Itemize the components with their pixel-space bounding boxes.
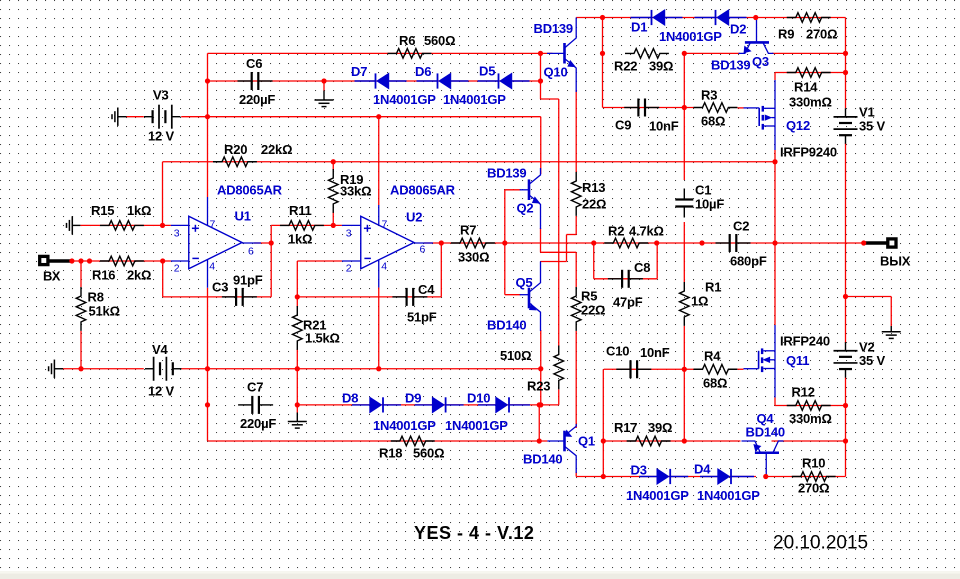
diode D2 [695, 17, 716, 19]
svg-text:1N4001GP: 1N4001GP [443, 92, 506, 107]
junction [205, 78, 210, 83]
wire [296, 349, 298, 405]
wire [541, 251, 577, 253]
diode D5 [478, 80, 499, 82]
junction [205, 114, 210, 119]
wire [80, 224, 170, 226]
wire [766, 476, 846, 478]
resistor R18 [391, 436, 435, 446]
junction [682, 438, 687, 443]
junction [205, 402, 210, 407]
wire [163, 296, 272, 298]
wire [774, 398, 776, 406]
svg-text:2: 2 [174, 263, 180, 275]
wire [80, 331, 82, 369]
resistor R22 [625, 49, 669, 59]
op-amp U2 [361, 216, 414, 269]
svg-text:D6: D6 [415, 64, 431, 79]
junction [600, 15, 605, 20]
junction [376, 114, 381, 119]
wire [378, 288, 380, 369]
wire [603, 107, 694, 109]
wire [162, 261, 164, 297]
junction [538, 78, 543, 83]
wire [440, 243, 442, 297]
diode D10 [478, 404, 496, 406]
junction [682, 51, 687, 56]
wire [575, 216, 577, 235]
capacitor C1 [683, 189, 685, 200]
svg-text:BD139: BD139 [534, 21, 573, 36]
junction [502, 240, 507, 245]
wire [540, 228, 542, 252]
svg-text:680pF: 680pF [730, 254, 767, 269]
junction [160, 258, 165, 263]
svg-text:R8: R8 [88, 290, 104, 305]
resistor R7 [451, 238, 495, 248]
svg-text:R7: R7 [460, 223, 476, 238]
resistor R6 [388, 49, 432, 59]
svg-text:Q1: Q1 [578, 434, 595, 449]
svg-text:Q12: Q12 [786, 118, 810, 133]
junction [538, 51, 543, 56]
junction [295, 294, 300, 299]
svg-text:51kΩ: 51kΩ [89, 304, 120, 319]
svg-text:R17: R17 [614, 420, 637, 435]
wire [181, 116, 541, 118]
svg-text:R12: R12 [792, 385, 815, 400]
svg-text:330Ω: 330Ω [458, 250, 489, 265]
wire [505, 189, 521, 191]
wire [61, 368, 144, 370]
svg-text:R20: R20 [224, 142, 247, 157]
op-amp U1 [189, 216, 242, 269]
junction [682, 367, 687, 372]
wire [602, 18, 604, 108]
svg-text:R2: R2 [608, 224, 624, 239]
svg-text:C9: C9 [615, 118, 631, 133]
wire [540, 53, 542, 99]
wire [541, 404, 559, 406]
junction [376, 366, 381, 371]
svg-text:10µF: 10µF [695, 197, 724, 212]
svg-text:U1: U1 [235, 209, 251, 224]
capacitor C10 [616, 368, 630, 370]
wire [541, 98, 559, 100]
wire [575, 252, 577, 287]
resistor R21 [293, 306, 303, 350]
resistor R9 [787, 13, 831, 23]
junction [772, 159, 777, 164]
svg-text:1Ω: 1Ω [691, 294, 708, 309]
wire [271, 224, 342, 226]
wire [738, 368, 744, 370]
svg-text:1N4001GP: 1N4001GP [659, 29, 722, 44]
svg-text:V3: V3 [153, 88, 169, 103]
wire [575, 331, 577, 428]
svg-text:D1: D1 [631, 20, 647, 35]
svg-text:560Ω: 560Ω [424, 33, 455, 48]
svg-text:C7: C7 [247, 380, 263, 395]
junction [538, 402, 543, 407]
svg-text:Q11: Q11 [786, 353, 809, 368]
junction [295, 402, 300, 407]
junction [439, 240, 444, 245]
svg-text:4.7kΩ: 4.7kΩ [629, 224, 664, 239]
svg-text:ВХ: ВХ [43, 269, 61, 284]
resistor R23 [554, 346, 564, 390]
wire [540, 117, 542, 174]
wire [378, 117, 380, 205]
wire [845, 143, 847, 343]
junction [654, 240, 659, 245]
svg-text:6: 6 [420, 244, 426, 256]
svg-text:R23: R23 [527, 379, 550, 394]
svg-text:270Ω: 270Ω [798, 481, 829, 496]
svg-text:270Ω: 270Ω [806, 27, 837, 42]
svg-text:BD140: BD140 [523, 452, 562, 467]
junction [861, 240, 866, 245]
ground [117, 108, 119, 126]
svg-text:3: 3 [346, 228, 352, 240]
battery V3 [144, 116, 153, 118]
wire [296, 261, 298, 307]
svg-text:1N4001GP: 1N4001GP [373, 418, 436, 433]
wire [540, 330, 542, 405]
svg-text:35 V: 35 V [859, 353, 885, 368]
wire [504, 190, 506, 295]
junction [843, 438, 848, 443]
junction [331, 159, 336, 164]
diode D8 [352, 404, 370, 406]
svg-text:R11: R11 [289, 203, 312, 218]
ground [890, 326, 892, 331]
svg-text:D2: D2 [730, 22, 746, 37]
wire [566, 235, 568, 262]
capacitor C9 [624, 107, 638, 109]
svg-text:Q3: Q3 [752, 54, 769, 69]
MOSFET Q12 [744, 107, 760, 109]
svg-text:C1: C1 [695, 183, 711, 198]
diode D9 [415, 404, 433, 406]
svg-text:2kΩ: 2kΩ [127, 268, 151, 283]
junction [600, 51, 605, 56]
wire [684, 52, 740, 54]
svg-text:35 V: 35 V [859, 119, 885, 134]
junction [772, 240, 777, 245]
svg-text:330mΩ: 330mΩ [789, 95, 832, 110]
svg-text:U2: U2 [406, 210, 422, 225]
svg-text:1kΩ: 1kΩ [288, 232, 312, 247]
svg-text:R18: R18 [379, 446, 402, 461]
junction [843, 70, 848, 75]
svg-text:R4: R4 [704, 349, 721, 364]
wire [207, 53, 209, 197]
resistor R16 [100, 256, 144, 266]
wire [775, 72, 846, 74]
svg-text:R13: R13 [582, 180, 605, 195]
svg-text:R15: R15 [91, 203, 114, 218]
svg-text:2: 2 [346, 263, 352, 275]
svg-text:IRFP9240: IRFP9240 [780, 145, 837, 160]
svg-text:V4: V4 [152, 342, 168, 357]
svg-text:C4: C4 [418, 282, 435, 297]
svg-text:R5: R5 [581, 289, 597, 304]
wire [845, 378, 847, 477]
svg-text:510Ω: 510Ω [500, 348, 531, 363]
junction [753, 15, 758, 20]
wire [162, 162, 164, 226]
resistor R5 [571, 287, 581, 331]
svg-text:12 V: 12 V [148, 129, 174, 144]
svg-text:C8: C8 [634, 260, 650, 275]
resistor R1 [680, 282, 690, 326]
svg-text:C10: C10 [606, 344, 629, 359]
wire [845, 18, 847, 109]
diode D1 [631, 17, 652, 19]
resistor R3 [694, 103, 738, 113]
junction [763, 474, 768, 479]
junction [843, 403, 848, 408]
junction [205, 366, 210, 371]
wire [576, 476, 756, 478]
ground [53, 360, 55, 378]
svg-text:IRFP240: IRFP240 [780, 334, 830, 349]
svg-text:1.5kΩ: 1.5kΩ [305, 331, 340, 346]
wire [656, 243, 658, 279]
wire [594, 278, 657, 280]
svg-text:D3: D3 [631, 463, 647, 478]
svg-text:22Ω: 22Ω [581, 303, 605, 318]
svg-text:YES - 4 - V.12: YES - 4 - V.12 [414, 523, 534, 543]
capacitor C6 [238, 80, 252, 82]
svg-text:V1: V1 [859, 105, 875, 120]
svg-text:10nF: 10nF [649, 119, 679, 134]
svg-text:R1: R1 [705, 280, 721, 295]
svg-text:33kΩ: 33kΩ [340, 184, 371, 199]
svg-text:1kΩ: 1kΩ [127, 203, 151, 218]
transistor Q1 [563, 431, 566, 452]
wire [505, 294, 521, 296]
diode D3 [639, 476, 657, 478]
junction [591, 240, 596, 245]
svg-text:D10: D10 [467, 391, 490, 406]
wire [846, 296, 892, 298]
wire [683, 222, 685, 282]
junction [538, 366, 543, 371]
ground [296, 405, 298, 413]
wire [424, 242, 864, 244]
svg-text:7: 7 [382, 219, 388, 231]
wire [576, 17, 845, 19]
resistor R10 [792, 472, 836, 482]
wire [541, 261, 567, 263]
diode D7 [355, 80, 376, 82]
svg-text:22Ω: 22Ω [582, 197, 606, 212]
svg-text:560Ω: 560Ω [413, 446, 444, 461]
junction [699, 240, 704, 245]
svg-text:91pF: 91pF [233, 273, 263, 288]
svg-text:Q5: Q5 [516, 275, 533, 290]
wire [297, 260, 342, 262]
capacitor C8 [608, 278, 622, 280]
wire [254, 242, 271, 244]
svg-text:330mΩ: 330mΩ [789, 411, 832, 426]
svg-text:220µF: 220µF [240, 416, 276, 431]
wire [207, 288, 209, 441]
svg-text:D4: D4 [694, 462, 711, 477]
junction [537, 402, 542, 407]
wire [772, 52, 846, 54]
ground [323, 81, 325, 91]
svg-text:C3: C3 [212, 280, 228, 295]
wire [772, 440, 846, 442]
resistor R17 [627, 436, 671, 446]
capacitor C7 [238, 404, 252, 406]
svg-text:12 V: 12 V [148, 384, 174, 399]
ground [71, 216, 73, 234]
junction [843, 294, 848, 299]
transistor Q2 [528, 179, 531, 200]
resistor R15 [100, 221, 144, 231]
svg-text:R3: R3 [701, 88, 717, 103]
junction [537, 438, 542, 443]
capacitor C2 [716, 242, 730, 244]
junction [601, 474, 606, 479]
transistor Q10 [563, 43, 566, 64]
junction [843, 51, 848, 56]
wire [538, 405, 540, 441]
svg-text:BD139: BD139 [487, 166, 526, 181]
junction [160, 223, 165, 228]
svg-text:1N4001GP: 1N4001GP [697, 488, 760, 503]
svg-text:4: 4 [209, 261, 215, 273]
wire [575, 472, 577, 477]
svg-text:R16: R16 [92, 268, 115, 283]
svg-text:6: 6 [248, 246, 254, 258]
transistor Q4 [755, 451, 779, 454]
junction [321, 78, 326, 83]
wire [332, 162, 334, 170]
svg-text:D9: D9 [405, 391, 421, 406]
svg-text:Q4: Q4 [757, 411, 775, 426]
wire [774, 73, 776, 81]
svg-text:39Ω: 39Ω [649, 59, 673, 74]
junction [78, 366, 83, 371]
MOSFET Q11 [744, 368, 759, 370]
resistor R19 [328, 169, 338, 213]
svg-text:1N4001GP: 1N4001GP [626, 488, 689, 503]
svg-text:D5: D5 [479, 64, 495, 79]
wire [181, 368, 541, 370]
junction [269, 240, 274, 245]
bottom scrollbar strip [0, 571, 960, 579]
node BX input connector [49, 259, 72, 262]
junction [69, 258, 74, 263]
resistor R8 [76, 287, 86, 331]
junction [682, 105, 687, 110]
resistor R2 [604, 238, 648, 248]
svg-text:D8: D8 [342, 391, 358, 406]
wire [332, 212, 334, 225]
wire [683, 53, 685, 180]
wire [127, 116, 144, 118]
svg-text:1N4001GP: 1N4001GP [445, 418, 508, 433]
wire [683, 326, 685, 441]
wire [558, 99, 560, 346]
resistor R20 [213, 157, 257, 167]
wire [163, 161, 776, 163]
battery V4 [145, 368, 154, 370]
wire [593, 243, 595, 279]
svg-text:47pF: 47pF [613, 295, 643, 310]
wire [558, 390, 560, 405]
transistor Q5 [528, 288, 531, 309]
junction [331, 223, 336, 228]
svg-text:R22: R22 [614, 59, 637, 74]
wire [80, 261, 82, 287]
svg-text:R14: R14 [794, 80, 818, 95]
svg-text:68Ω: 68Ω [701, 114, 725, 129]
svg-text:4: 4 [381, 261, 387, 273]
wire [774, 150, 776, 325]
wire [270, 225, 272, 297]
svg-text:BD140: BD140 [487, 318, 526, 333]
svg-text:1N4001GP: 1N4001GP [373, 92, 436, 107]
svg-text:68Ω: 68Ω [703, 376, 727, 391]
transistor Q3 [745, 41, 769, 44]
wire [603, 440, 740, 442]
resistor R11 [280, 221, 324, 231]
svg-text:3: 3 [174, 228, 180, 240]
svg-text:39Ω: 39Ω [648, 420, 672, 435]
capacitor C4 [392, 296, 406, 298]
svg-text:51pF: 51pF [407, 310, 437, 325]
wire [602, 369, 604, 476]
junction [87, 258, 92, 263]
svg-text:20.10.2015: 20.10.2015 [773, 533, 868, 554]
battery V2 [845, 342, 847, 351]
wire [72, 260, 171, 262]
resistor R13 [571, 172, 581, 216]
svg-text:C6: C6 [246, 56, 262, 71]
svg-text:ВЫХ: ВЫХ [880, 254, 911, 269]
svg-text:220µF: 220µF [239, 92, 275, 107]
svg-text:10nF: 10nF [640, 345, 670, 360]
svg-text:BD140: BD140 [746, 425, 785, 440]
wire [567, 234, 577, 236]
wire [297, 404, 540, 406]
wire [890, 297, 892, 327]
wire [208, 440, 548, 442]
svg-text:AD8065AR: AD8065AR [390, 183, 456, 198]
diode D6 [417, 80, 438, 82]
resistor R14 [787, 68, 831, 78]
battery V1 [845, 108, 847, 117]
svg-text:C2: C2 [733, 219, 749, 234]
wire [575, 90, 577, 172]
wire [208, 80, 541, 82]
junction [78, 258, 83, 263]
wire [775, 405, 846, 407]
svg-text:Q10: Q10 [544, 65, 568, 80]
diode D4 [700, 476, 718, 478]
capacitor C3 [222, 296, 236, 298]
wire [208, 52, 553, 54]
node BbIX output connector [864, 241, 888, 244]
wire [738, 107, 744, 109]
svg-text:D7: D7 [351, 64, 367, 79]
